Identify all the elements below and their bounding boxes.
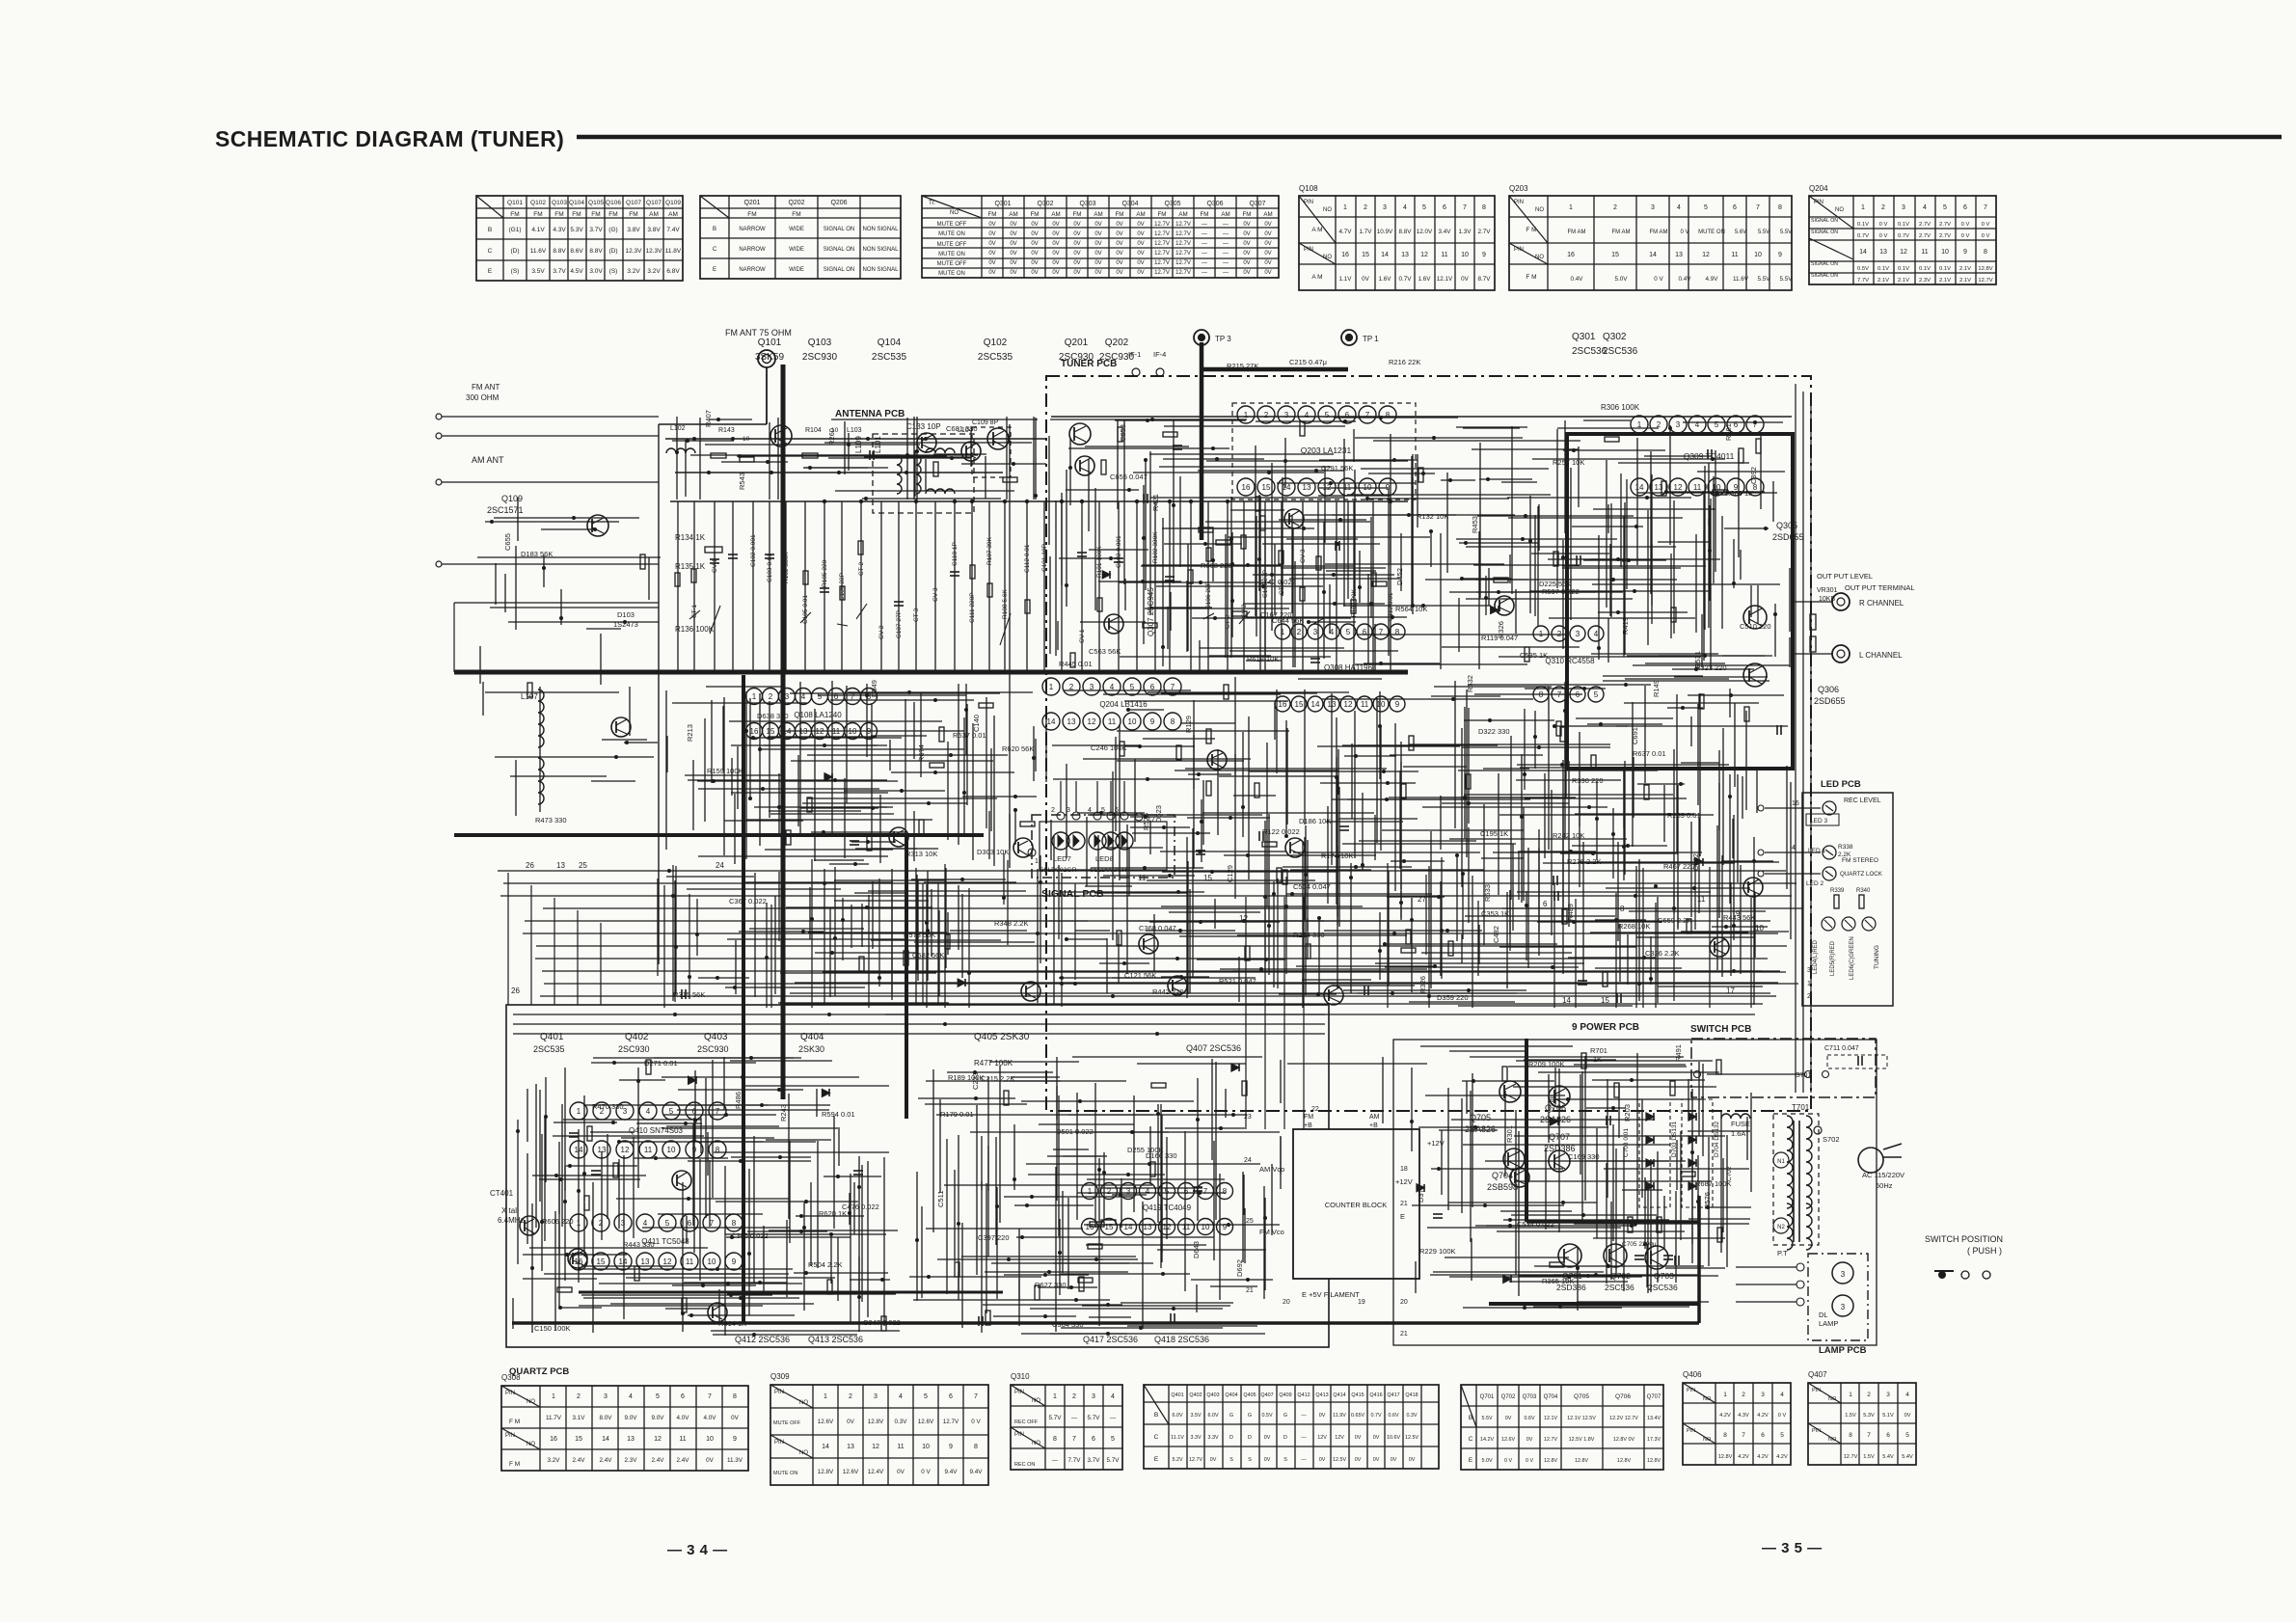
svg-text:10: 10 [1128,717,1137,726]
svg-text:R254 330: R254 330 [1293,931,1325,939]
svg-text:C109 8P: C109 8P [972,419,999,426]
svg-text:0V: 0V [1031,270,1038,276]
svg-text:0V: 0V [1264,260,1271,266]
svg-text:7: 7 [1072,1436,1076,1443]
svg-text:Q704: Q704 [1492,1171,1513,1180]
svg-text:Q404: Q404 [1225,1392,1237,1398]
svg-text:R213: R213 [686,724,694,742]
svg-text:20: 20 [1400,1299,1408,1306]
svg-text:Q701: Q701 [1562,1271,1582,1281]
svg-text:8: 8 [716,1146,720,1154]
svg-text:6: 6 [1115,807,1119,814]
svg-text:1: 1 [752,692,757,701]
svg-text:R521 0.047: R521 0.047 [1219,977,1256,986]
svg-text:12.8V: 12.8V [1718,1454,1733,1460]
svg-text:Q407: Q407 [1808,1370,1827,1379]
svg-text:Q707: Q707 [1549,1132,1570,1142]
svg-text:FUSE: FUSE [1731,1120,1750,1128]
svg-text:AM: AM [1094,211,1102,218]
svg-text:R313 10K: R313 10K [905,850,937,858]
svg-text:13.4V: 13.4V [1647,1416,1661,1421]
svg-text:R339: R339 [1830,888,1845,894]
svg-text:5: 5 [1594,690,1599,699]
svg-text:0V: 0V [1073,231,1080,237]
svg-text:10.9V: 10.9V [1377,229,1393,235]
svg-text:3: 3 [1126,1187,1131,1196]
svg-text:14: 14 [602,1436,609,1443]
svg-text:SWITCH POSITION: SWITCH POSITION [1925,1234,2003,1244]
svg-text:Q702: Q702 [1610,1271,1631,1281]
svg-text:12: 12 [1702,252,1710,258]
svg-text:A M: A M [1311,227,1322,233]
svg-text:12.8V: 12.8V [818,1469,834,1475]
svg-text:11.3V: 11.3V [727,1457,743,1464]
svg-text:8: 8 [1386,411,1391,419]
svg-text:0V: 0V [1505,1416,1512,1421]
svg-text:Q701: Q701 [1480,1394,1495,1400]
svg-text:5.0V: 5.0V [1481,1458,1492,1464]
svg-text:Q109: Q109 [665,200,681,206]
svg-text:13: 13 [1675,252,1683,258]
svg-text:LED PCB: LED PCB [1821,779,1861,790]
svg-text:0 V: 0 V [1680,230,1688,235]
svg-text:R134 1K: R134 1K [675,533,706,542]
svg-text:C102 0.001: C102 0.001 [1116,535,1122,568]
svg-text:0V: 0V [1094,270,1101,276]
svg-text:—: — [1202,231,1207,237]
svg-text:C392: C392 [1749,467,1758,484]
svg-text:4.3V: 4.3V [553,227,566,233]
svg-text:11: 11 [1441,252,1447,258]
svg-text:4: 4 [1923,204,1927,211]
svg-text:12.8V: 12.8V [1978,266,1992,272]
svg-text:R467 220: R467 220 [1663,862,1695,871]
svg-text:2: 2 [1867,1392,1871,1398]
svg-text:C142 0.022: C142 0.022 [1258,578,1296,586]
svg-text:9: 9 [1150,717,1155,726]
svg-text:6: 6 [1963,204,1967,211]
svg-text:3: 3 [604,1393,608,1400]
svg-text:0V: 0V [1116,241,1122,247]
svg-text:0 V: 0 V [1879,233,1888,239]
svg-text:3.8V: 3.8V [647,227,661,233]
svg-text:0V: 0V [1116,222,1122,228]
svg-text:C563 56K: C563 56K [1089,647,1121,656]
svg-text:SIGNAL PCB: SIGNAL PCB [1041,888,1104,900]
svg-text:N2: N2 [1777,1225,1785,1230]
svg-text:10: 10 [1754,252,1762,258]
svg-text:—: — [1301,1413,1307,1419]
svg-text:PIN: PIN [505,1433,515,1439]
svg-text:11: 11 [686,1257,694,1266]
svg-text:R340: R340 [1856,888,1871,894]
svg-text:AM: AM [1369,1114,1380,1121]
svg-text:NON SIGNAL: NON SIGNAL [862,227,899,232]
svg-text:6: 6 [1092,1436,1095,1443]
svg-text:7: 7 [1365,411,1370,419]
svg-text:0V: 0V [1264,1457,1271,1463]
svg-text:11: 11 [644,1146,653,1154]
svg-text:13: 13 [1879,249,1887,256]
svg-text:12.7V: 12.7V [1154,251,1170,257]
svg-text:R CHANNEL: R CHANNEL [1859,599,1904,608]
svg-text:12: 12 [621,1146,630,1154]
svg-text:6.8V: 6.8V [666,268,680,275]
svg-text:S: S [1229,1457,1233,1463]
svg-text:5.7V: 5.7V [1107,1457,1121,1464]
svg-text:12V: 12V [1317,1435,1327,1441]
svg-text:8: 8 [1053,1436,1057,1443]
svg-text:9: 9 [1482,252,1486,258]
svg-text:1.3V: 1.3V [1459,229,1472,235]
svg-text:AM: AM [1009,211,1017,218]
svg-text:Q306: Q306 [1206,201,1223,207]
svg-text:—: — [1110,1415,1117,1421]
svg-text:14: 14 [1047,717,1056,726]
svg-text:0 V: 0 V [1778,1413,1787,1419]
svg-text:D: D [1283,1435,1287,1441]
svg-text:R268 10K: R268 10K [1618,922,1650,931]
svg-text:(G): (G) [608,227,617,233]
svg-text:Q404: Q404 [800,1032,824,1042]
svg-text:26: 26 [526,861,534,870]
svg-text:22: 22 [1311,1106,1319,1113]
svg-text:—: — [1301,1457,1307,1463]
svg-text:Q703: Q703 [1523,1394,1537,1400]
svg-text:7: 7 [1867,1432,1871,1439]
svg-text:D692: D692 [1235,1259,1244,1277]
svg-text:SIGNAL ON: SIGNAL ON [1811,230,1838,235]
svg-text:6.4MHz: 6.4MHz [498,1216,525,1225]
svg-text:0V: 0V [1243,241,1250,247]
svg-text:—: — [1202,222,1207,228]
svg-text:12.7V: 12.7V [1154,260,1170,266]
svg-text:MUTE ON: MUTE ON [938,231,965,237]
svg-text:Q401: Q401 [1171,1392,1183,1398]
svg-text:0V: 0V [1031,222,1038,228]
svg-text:0.1V: 0.1V [1919,266,1931,272]
svg-text:C482: C482 [1492,926,1500,943]
svg-text:Q102: Q102 [984,338,1008,348]
svg-text:4: 4 [1594,630,1599,638]
svg-text:Q306: Q306 [1818,685,1839,694]
svg-text:Q101: Q101 [758,338,782,348]
svg-text:1: 1 [1343,204,1347,211]
svg-text:3.4V: 3.4V [1439,229,1452,235]
svg-text:FM Vco: FM Vco [1259,1228,1284,1236]
svg-text:4.9V: 4.9V [1706,276,1719,283]
svg-text:0V: 0V [988,251,995,257]
svg-text:2SC535: 2SC535 [978,352,1013,363]
svg-text:3.5V: 3.5V [1190,1413,1201,1419]
svg-text:7: 7 [708,1393,712,1400]
svg-text:R532: R532 [1466,675,1474,692]
svg-text:S: S [1248,1457,1252,1463]
svg-text:R620 1K: R620 1K [819,1209,847,1218]
svg-text:Q707: Q707 [1647,1394,1661,1400]
svg-text:R594 0.01: R594 0.01 [822,1110,855,1119]
svg-text:C291 56K: C291 56K [1321,464,1353,473]
svg-text:10.6V: 10.6V [1387,1435,1400,1441]
svg-text:12.7V: 12.7V [1154,270,1170,276]
svg-text:4: 4 [1330,628,1335,636]
svg-text:1: 1 [552,1393,555,1400]
svg-text:QUARTZ LOCK: QUARTZ LOCK [1840,871,1883,878]
svg-text:300 OHM: 300 OHM [466,393,500,402]
svg-text:FM: FM [792,211,800,218]
svg-text:15: 15 [1601,996,1609,1005]
svg-text:G: G [1248,1413,1252,1419]
svg-text:FM: FM [747,211,756,218]
svg-text:Q412: Q412 [1297,1392,1310,1398]
svg-text:2SD655: 2SD655 [1772,532,1804,542]
svg-text:0V: 0V [1073,260,1080,266]
svg-text:2SC930: 2SC930 [802,352,838,363]
svg-text:4: 4 [1780,1392,1784,1398]
svg-text:Q104: Q104 [569,200,584,206]
svg-text:17: 17 [1148,817,1155,824]
svg-text:R102 330K: R102 330K [783,552,790,583]
svg-text:2: 2 [600,1107,605,1116]
svg-text:0V: 0V [1264,251,1271,257]
svg-text:8: 8 [1849,1432,1852,1439]
svg-text:Q103: Q103 [808,338,832,348]
svg-text:NO: NO [527,1399,535,1405]
svg-text:1.6V: 1.6V [1379,276,1392,283]
svg-text:R701: R701 [1590,1046,1607,1055]
svg-text:0V: 0V [1409,1457,1416,1463]
svg-text:FM: FM [533,211,542,218]
svg-text:0V: 0V [1461,276,1470,283]
svg-text:19: 19 [1358,1299,1365,1306]
svg-text:PIN: PIN [1014,1390,1024,1395]
svg-text:FM: FM [1073,211,1082,218]
svg-text:5: 5 [1943,204,1947,211]
svg-text:Q106: Q106 [606,200,621,206]
svg-text:TP 1: TP 1 [1363,335,1379,343]
svg-text:2.1V: 2.1V [1959,266,1971,272]
svg-text:2: 2 [1742,1392,1745,1398]
svg-text:0V: 0V [1137,251,1144,257]
svg-text:Q304: Q304 [1121,201,1138,207]
svg-text:CV-2: CV-2 [878,625,885,639]
svg-text:0.7V: 0.7V [1857,233,1869,239]
svg-text:R618 10K: R618 10K [1247,655,1279,663]
svg-text:0 V: 0 V [1961,233,1970,239]
svg-text:8.8V: 8.8V [1399,229,1413,235]
svg-text:R668 220: R668 220 [1201,561,1232,570]
svg-text:2SD386: 2SD386 [1544,1144,1576,1153]
svg-text:1.6AT: 1.6AT [1731,1129,1750,1138]
svg-text:Q403: Q403 [704,1032,728,1042]
svg-text:12.0V: 12.0V [1417,229,1433,235]
svg-text:—: — [1202,241,1207,247]
svg-text:D638 330: D638 330 [757,712,789,720]
svg-text:R107 39K: R107 39K [986,536,993,565]
svg-text:9.4V: 9.4V [970,1469,984,1475]
svg-text:Q416: Q416 [1369,1392,1382,1398]
svg-text:3.1V: 3.1V [573,1415,586,1421]
svg-text:Q406: Q406 [1683,1370,1702,1379]
svg-text:1.6V: 1.6V [1418,276,1432,283]
svg-text:0V: 0V [988,270,995,276]
svg-text:—: — [1052,1457,1059,1464]
svg-text:1.7V: 1.7V [1360,229,1373,235]
svg-text:C105 0.01: C105 0.01 [802,595,809,624]
svg-text:12.7V: 12.7V [943,1419,959,1425]
svg-text:R674: R674 [917,744,926,762]
svg-text:R543: R543 [738,473,746,490]
svg-text:1: 1 [1244,411,1249,419]
svg-text:—: — [1202,270,1207,276]
svg-text:3: 3 [621,1219,626,1228]
svg-text:MUTE ON: MUTE ON [773,1471,797,1476]
svg-text:5: 5 [1715,420,1719,429]
svg-text:Q705: Q705 [1470,1113,1491,1122]
svg-text:0V: 0V [1362,276,1370,283]
svg-text:12.7V: 12.7V [1175,231,1191,237]
svg-text:F M: F M [1526,227,1536,233]
svg-text:2SD386: 2SD386 [1556,1283,1586,1292]
svg-text:2.7V: 2.7V [1478,229,1492,235]
svg-text:R606 220: R606 220 [542,1217,574,1226]
svg-text:12.2V 12.7V: 12.2V 12.7V [1609,1416,1638,1421]
svg-text:5: 5 [1905,1432,1909,1439]
svg-text:R477 100K: R477 100K [974,1059,1013,1068]
svg-text:3.2V: 3.2V [647,268,661,275]
svg-text:C140: C140 [972,715,981,732]
svg-text:Q202: Q202 [788,200,804,206]
svg-text:D359 220: D359 220 [1437,993,1469,1002]
svg-text:6.0V: 6.0V [1172,1413,1182,1419]
svg-text:6: 6 [688,1219,692,1228]
svg-text:L103: L103 [847,427,862,434]
svg-text:12.5V 1.8V: 12.5V 1.8V [1569,1437,1595,1443]
svg-text:4.2V: 4.2V [1738,1454,1749,1460]
svg-text:2.4V: 2.4V [600,1457,613,1464]
svg-text:FM: FM [572,211,581,218]
svg-text:7: 7 [710,1219,715,1228]
svg-text:14: 14 [1562,996,1571,1005]
svg-text:R276 2.2K: R276 2.2K [1567,857,1601,866]
svg-text:CT-2: CT-2 [858,562,865,576]
svg-text:2.3V: 2.3V [1919,278,1931,284]
svg-text:B: B [1154,1412,1158,1419]
svg-text:16: 16 [750,727,759,736]
svg-text:5.6V: 5.6V [1735,230,1746,235]
svg-text:3: 3 [623,1107,628,1116]
svg-text:C102 0.001: C102 0.001 [750,534,757,567]
svg-text:4: 4 [1146,1187,1150,1196]
svg-text:0V: 0V [1052,260,1059,266]
svg-text:4: 4 [1905,1392,1909,1398]
svg-text:10: 10 [922,1444,930,1450]
svg-text:0V: 0V [847,1419,855,1425]
svg-text:E: E [713,267,716,273]
svg-text:7: 7 [974,1393,978,1400]
svg-text:D: D [1248,1435,1252,1441]
svg-text:2: 2 [1297,628,1302,636]
svg-text:5.5V: 5.5V [1758,230,1769,235]
svg-text:3: 3 [785,692,790,701]
svg-text:14: 14 [1635,483,1644,492]
svg-text:2: 2 [1264,411,1269,419]
svg-text:0V: 0V [1052,231,1059,237]
svg-text:T701: T701 [1792,1103,1810,1112]
svg-text:—: — [1301,1435,1307,1441]
svg-text:12V: 12V [1335,1435,1344,1441]
svg-text:0V: 0V [1010,251,1016,257]
svg-text:R473 330: R473 330 [535,816,567,825]
svg-text:Q703: Q703 [1654,1271,1674,1281]
svg-text:12.8V: 12.8V [1647,1458,1661,1464]
svg-text:13: 13 [1401,252,1409,258]
svg-text:12.5V: 12.5V [1333,1457,1346,1463]
svg-text:9: 9 [1386,483,1391,492]
svg-text:C535 1K: C535 1K [1520,651,1548,660]
svg-text:C: C [713,247,717,253]
svg-text:2SA826: 2SA826 [1465,1124,1496,1134]
svg-text:R209 100K: R209 100K [1528,1060,1565,1068]
svg-text:C702: C702 [1726,1166,1733,1181]
svg-text:2SA826: 2SA826 [1540,1115,1571,1124]
svg-text:0V: 0V [1391,1457,1397,1463]
svg-text:0V: 0V [731,1415,740,1421]
svg-text:0 V: 0 V [1654,276,1663,283]
svg-text:15: 15 [767,727,775,736]
svg-text:11: 11 [897,1444,904,1450]
svg-text:LED 2: LED 2 [1806,880,1823,887]
svg-text:REC OFF: REC OFF [1014,1419,1039,1425]
svg-text:16: 16 [1567,252,1575,258]
svg-text:0V: 0V [988,241,995,247]
svg-text:21: 21 [1246,1287,1254,1294]
svg-text:3: 3 [1902,204,1905,211]
svg-text:D103: D103 [617,610,635,619]
svg-text:0.65V: 0.65V [1351,1413,1364,1419]
svg-text:FM: FM [629,211,637,218]
svg-text:3.0V: 3.0V [589,268,603,275]
svg-text:14: 14 [1381,252,1389,258]
svg-text:Q405 2SK30: Q405 2SK30 [974,1032,1030,1042]
svg-text:Q309: Q309 [770,1372,790,1381]
svg-text:2SC535: 2SC535 [872,352,907,363]
svg-text:R243: R243 [779,1104,788,1122]
svg-text:C112 0.01: C112 0.01 [1024,544,1031,573]
svg-text:3: 3 [1383,204,1387,211]
svg-text:3.7V: 3.7V [1088,1457,1101,1464]
svg-text:3.5V: 3.5V [531,268,545,275]
svg-text:8.6V: 8.6V [570,248,583,255]
svg-text:D186 10K: D186 10K [1299,817,1331,825]
svg-text:0V: 0V [1010,241,1016,247]
svg-text:PIN: PIN [1304,247,1313,253]
svg-text:8: 8 [733,1393,737,1400]
svg-text:12.7V: 12.7V [1978,278,1992,284]
svg-text:CV-1: CV-1 [1079,629,1086,643]
svg-text:13: 13 [1067,717,1076,726]
svg-text:7: 7 [1753,420,1758,429]
svg-text:R564 10K: R564 10K [1395,605,1427,613]
svg-text:12.3V: 12.3V [646,248,663,255]
svg-text:Q702: Q702 [1501,1394,1516,1400]
svg-text:12.8V: 12.8V [1575,1458,1588,1464]
svg-text:0V: 0V [1319,1413,1326,1419]
svg-text:E: E [1154,1456,1159,1463]
svg-text:E +5V FILAMENT: E +5V FILAMENT [1302,1290,1360,1299]
svg-text:C703 0.01: C703 0.01 [1623,1128,1630,1157]
svg-text:6: 6 [1761,1432,1765,1439]
